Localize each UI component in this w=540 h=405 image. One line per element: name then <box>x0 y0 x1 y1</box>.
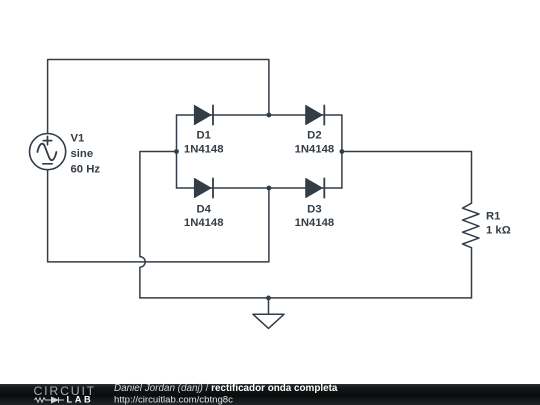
label D1 value <box>184 130 224 156</box>
junction right bridge node <box>340 149 345 154</box>
svg-text:R1: R1 <box>486 210 500 222</box>
svg-text:1N4148: 1N4148 <box>184 144 224 156</box>
wire right bridge node to R1 top <box>342 152 472 204</box>
wire bridge top row <box>177 114 342 116</box>
junction left bridge node <box>174 149 179 154</box>
svg-text:Daniel Jordan (danj) / rectifi: Daniel Jordan (danj) / rectificador onda… <box>114 383 338 394</box>
wire V1 minus to bridge bottom junction <box>48 170 269 262</box>
footer bar <box>0 384 540 405</box>
diode D1 <box>194 105 213 124</box>
diode D4 <box>194 178 213 197</box>
voltage source V1 <box>29 134 65 170</box>
wire left bridge node to bottom rail with hop over V1 wire <box>140 152 177 298</box>
label D4 value <box>184 203 224 229</box>
resistor R1 <box>463 203 480 248</box>
svg-text:1N4148: 1N4148 <box>184 217 224 229</box>
label D3 value <box>295 203 335 229</box>
svg-text:D4: D4 <box>196 203 211 215</box>
CircuitLab logo resistor-diode doodle <box>35 397 65 402</box>
diode D3 <box>306 178 325 197</box>
label R1 value <box>486 210 511 236</box>
footer title line author and circuit name <box>114 383 338 405</box>
junction bottom bridge node <box>267 186 272 191</box>
wire bridge bottom row <box>177 187 342 189</box>
svg-text:D2: D2 <box>307 130 321 142</box>
wire bottom rail <box>140 297 472 299</box>
wire bridge left edge <box>176 115 178 188</box>
svg-text:D3: D3 <box>307 203 321 215</box>
svg-text:LAB: LAB <box>67 395 94 405</box>
wire bridge right edge <box>341 115 343 188</box>
svg-text:1N4148: 1N4148 <box>295 144 335 156</box>
svg-text:http://circuitlab.com/cbtng8c: http://circuitlab.com/cbtng8c <box>114 395 233 405</box>
label V1 value <box>71 132 101 175</box>
wire R1 bottom lead <box>471 248 473 298</box>
svg-text:sine: sine <box>71 148 94 160</box>
label D2 value <box>295 130 335 156</box>
wire top feed from V1 plus to bridge top junction <box>48 60 269 134</box>
diode D2 <box>306 105 325 124</box>
ground <box>253 298 284 329</box>
svg-text:60 Hz: 60 Hz <box>71 163 101 175</box>
junction ground node <box>266 296 271 301</box>
svg-text:D1: D1 <box>196 130 210 142</box>
svg-text:1N4148: 1N4148 <box>295 217 335 229</box>
svg-text:1 kΩ: 1 kΩ <box>486 224 511 236</box>
junction top bridge node <box>267 113 272 118</box>
svg-text:V1: V1 <box>71 132 85 144</box>
